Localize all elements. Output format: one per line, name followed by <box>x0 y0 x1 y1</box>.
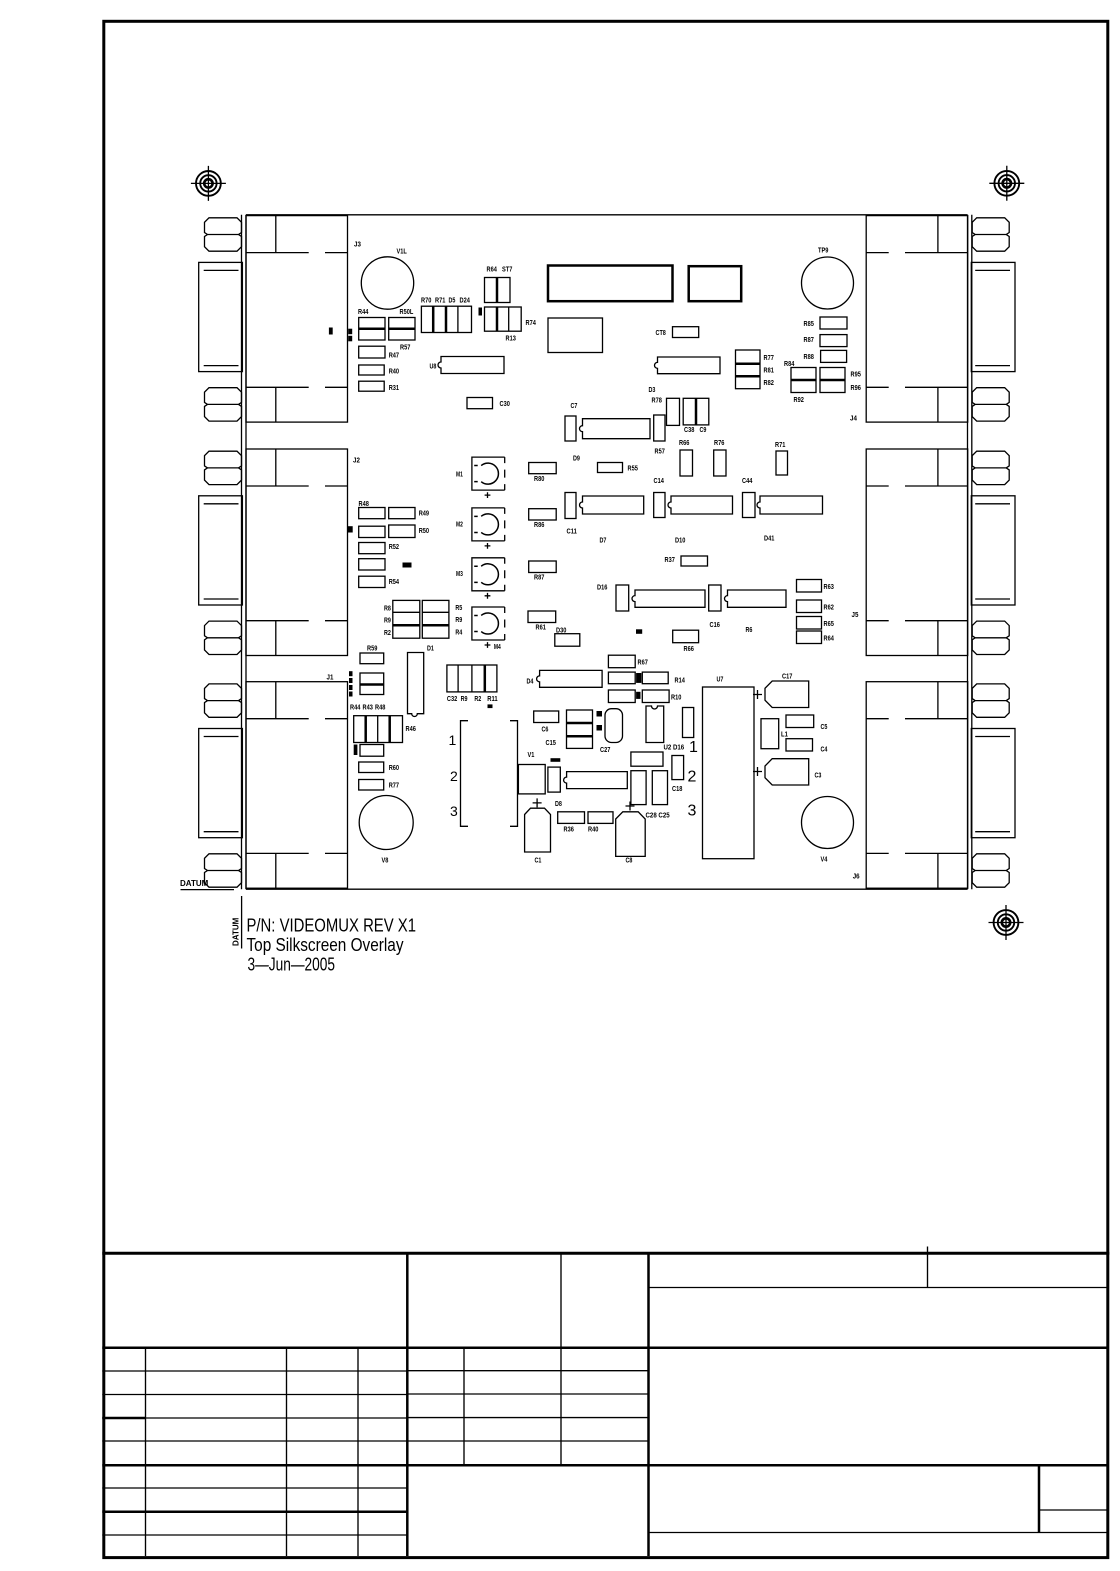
svg-text:M1: M1 <box>456 470 463 479</box>
svg-text:R70: R70 <box>421 296 431 305</box>
title block right column row line <box>649 1287 1109 1289</box>
svg-text:R61: R61 <box>536 623 546 632</box>
svg-text:R80: R80 <box>534 474 544 483</box>
resistor R53 <box>359 559 385 570</box>
capacitor C22 <box>652 771 667 805</box>
svg-text:R50: R50 <box>419 526 429 535</box>
svg-text:R64: R64 <box>824 634 835 643</box>
svg-text:R8: R8 <box>384 604 391 613</box>
resistor R59 <box>360 653 384 664</box>
IC U8 <box>438 357 504 374</box>
svg-text:R74: R74 <box>526 318 537 327</box>
svg-text:R48: R48 <box>359 499 369 508</box>
svg-text:CT8: CT8 <box>656 328 666 337</box>
PCB board right flange line <box>971 215 973 889</box>
svg-text:3: 3 <box>688 803 697 820</box>
resistor R64b <box>797 631 822 644</box>
svg-text:R57: R57 <box>655 447 665 456</box>
capacitor C14 <box>654 493 665 518</box>
bracket right <box>510 721 518 827</box>
svg-text:R6: R6 <box>746 625 753 634</box>
title block right column top cell divider <box>927 1253 929 1287</box>
jumper block R64/ST7 <box>485 278 511 303</box>
svg-text:C44: C44 <box>742 476 753 485</box>
svg-text:D10: D10 <box>675 536 685 545</box>
svg-text:C28 C25: C28 C25 <box>646 811 670 820</box>
svg-text:C8: C8 <box>626 856 633 865</box>
resistor R54 <box>359 576 385 587</box>
svg-text:R63: R63 <box>824 582 834 591</box>
svg-text:R10: R10 <box>671 693 681 702</box>
svg-text:R64: R64 <box>487 265 498 274</box>
trimmer M3 <box>472 558 505 591</box>
resistor array R46 <box>354 716 403 743</box>
resistor R65 <box>797 617 822 630</box>
svg-text:C14: C14 <box>654 476 665 485</box>
svg-text:R71: R71 <box>775 440 785 449</box>
diode D30 <box>555 634 580 647</box>
connector J2 (middle-left D-sub) <box>199 449 348 656</box>
svg-text:R87: R87 <box>804 335 814 344</box>
capacitor C1 <box>525 808 551 852</box>
IC U13 <box>632 590 705 607</box>
capacitor C18 <box>672 756 684 780</box>
svg-text:R50L: R50L <box>400 307 414 316</box>
svg-text:V8: V8 <box>382 856 389 865</box>
svg-text:R55: R55 <box>628 464 638 473</box>
svg-text:R85: R85 <box>804 319 814 328</box>
svg-text:R66: R66 <box>679 438 689 447</box>
jumper block R84 <box>791 368 816 393</box>
svg-text:R36: R36 <box>564 825 574 834</box>
pin mark <box>348 329 352 335</box>
svg-text:C4: C4 <box>821 745 829 754</box>
svg-text:R82: R82 <box>764 378 774 387</box>
trimmer M1 <box>472 457 505 490</box>
svg-text:D3: D3 <box>649 385 656 394</box>
title block horizontal thick lower <box>102 1464 1108 1467</box>
title block horizontal thick mid <box>102 1346 1108 1349</box>
connector J6 (bottom-right D-sub) <box>866 682 1015 889</box>
svg-text:R76: R76 <box>714 438 724 447</box>
svg-text:R62: R62 <box>824 603 834 612</box>
resistor R68 <box>673 630 699 643</box>
svg-text:L1: L1 <box>781 730 788 739</box>
svg-text:R5: R5 <box>455 603 462 612</box>
svg-text:C11: C11 <box>567 527 577 536</box>
svg-text:R14: R14 <box>675 676 686 685</box>
resistor R85 <box>820 317 847 329</box>
pad V8 circle <box>359 796 413 850</box>
svg-text:J5: J5 <box>852 610 859 619</box>
relay K2 (thick outline) <box>689 266 742 301</box>
svg-text:R13: R13 <box>506 334 516 343</box>
resistor R36 <box>558 812 585 824</box>
resistor R40 <box>359 365 385 375</box>
resistor array C32 <box>447 665 497 692</box>
svg-text:R9: R9 <box>455 615 462 624</box>
svg-text:C32: C32 <box>447 694 457 703</box>
IC U12 <box>757 496 823 514</box>
svg-text:R4: R4 <box>455 628 463 637</box>
svg-text:D4: D4 <box>527 677 535 686</box>
title block bottom right sub column <box>1038 1465 1041 1532</box>
svg-text:C15: C15 <box>546 738 556 747</box>
svg-text:1: 1 <box>449 732 457 748</box>
svg-text:R84: R84 <box>784 359 795 368</box>
resistor R52 <box>359 543 385 554</box>
pin mark <box>329 328 333 335</box>
bracket left <box>461 721 469 827</box>
svg-text:D9: D9 <box>573 454 580 463</box>
svg-text:R57: R57 <box>400 343 410 352</box>
svg-text:R86: R86 <box>534 520 544 529</box>
svg-text:D30: D30 <box>556 625 566 634</box>
svg-text:J2: J2 <box>353 456 360 465</box>
svg-text:R44: R44 <box>358 307 369 316</box>
resistor array 3-row <box>567 710 593 748</box>
revision table thick row <box>102 1510 407 1513</box>
svg-text:M2: M2 <box>456 520 463 529</box>
PCB board outline bottom edge <box>246 888 968 890</box>
capacitor C36 <box>616 585 629 611</box>
pin mark <box>349 692 353 697</box>
fiducial target top-right <box>989 166 1024 201</box>
IC U11 <box>668 496 733 514</box>
pin mark <box>479 308 483 316</box>
svg-text:R87: R87 <box>534 573 544 582</box>
pad TP circle <box>802 257 854 309</box>
capacitor C5 <box>786 715 814 728</box>
PCB board right edge line <box>967 215 969 889</box>
IC U9 <box>564 772 628 789</box>
svg-text:2: 2 <box>450 768 458 784</box>
jumper block R55b <box>360 673 384 695</box>
svg-text:2: 2 <box>688 769 697 786</box>
svg-text:D41: D41 <box>764 534 774 543</box>
svg-text:D5: D5 <box>449 296 456 305</box>
label R60b <box>551 758 561 762</box>
capacitor C30 <box>467 398 493 409</box>
IC U4 <box>655 357 721 374</box>
resistor R66 <box>680 450 693 476</box>
svg-text:R52: R52 <box>389 542 399 551</box>
resistor R60 <box>359 762 384 773</box>
svg-text:U7: U7 <box>717 675 724 684</box>
connector J3 (top-left D-sub) <box>199 216 348 423</box>
IC U14 <box>725 590 787 607</box>
svg-text:J4: J4 <box>850 414 858 423</box>
diode D1 body <box>408 653 424 717</box>
title block bottom right row <box>649 1532 1109 1534</box>
title block divider vertical left <box>406 1253 409 1556</box>
resistor R50L <box>389 318 415 341</box>
svg-text:C18: C18 <box>672 784 682 793</box>
resistor R14 pair <box>608 672 635 684</box>
PCB board left flange line <box>241 215 243 889</box>
resistor R47 <box>359 346 385 358</box>
middle grid rows <box>407 1370 648 1372</box>
svg-text:C6: C6 <box>542 725 549 734</box>
svg-text:C9: C9 <box>700 425 707 434</box>
jumper block R8/R9/R2 <box>393 600 420 638</box>
svg-text:R92: R92 <box>794 395 804 404</box>
svg-text:R2: R2 <box>474 694 481 703</box>
svg-text:R77: R77 <box>389 781 399 790</box>
IC U6 <box>631 752 663 766</box>
svg-text:J3: J3 <box>354 240 361 249</box>
IC U10 <box>580 496 644 514</box>
pin mark <box>488 704 493 708</box>
svg-text:V4: V4 <box>821 855 829 864</box>
capacitor C12 <box>683 708 694 738</box>
svg-text:DATUM: DATUM <box>180 879 209 888</box>
IC U5 <box>580 419 651 439</box>
svg-text:D16: D16 <box>597 583 607 592</box>
polarity plus V1 <box>533 798 542 807</box>
capacitor C17 <box>765 681 809 708</box>
fiducial target top-left <box>191 166 226 201</box>
svg-text:M3: M3 <box>456 569 463 578</box>
resistor CT8 <box>673 327 699 338</box>
regulator U2 <box>646 706 664 743</box>
svg-text:3: 3 <box>450 803 458 819</box>
pin mark <box>354 745 358 756</box>
svg-text:C5: C5 <box>821 722 828 731</box>
capacitor C7 <box>565 416 576 441</box>
capacitor C3 <box>765 759 809 785</box>
svg-text:R78: R78 <box>652 396 662 405</box>
resistor R56 <box>360 745 384 757</box>
svg-text:R2: R2 <box>384 628 391 637</box>
capacitor C21 <box>631 771 646 805</box>
svg-text:R59: R59 <box>367 644 377 653</box>
resistor R76 <box>714 450 726 476</box>
resistor R62 <box>797 600 822 613</box>
polarity plus C17 <box>753 690 762 699</box>
capacitor C9 <box>683 398 709 425</box>
svg-text:C3: C3 <box>815 771 822 780</box>
title block divider vertical right <box>647 1253 650 1556</box>
resistor R61 <box>528 611 556 623</box>
svg-text:C30: C30 <box>500 399 510 408</box>
svg-text:Top Silkscreen Overlay: Top Silkscreen Overlay <box>247 935 404 955</box>
IC D4 <box>537 670 603 687</box>
capacitor C38 <box>667 398 680 425</box>
resistor R67 <box>608 655 635 668</box>
svg-text:DATUM: DATUM <box>232 917 241 946</box>
svg-text:R43: R43 <box>363 703 373 712</box>
svg-text:R48: R48 <box>375 703 385 712</box>
svg-text:R67: R67 <box>638 658 648 667</box>
resistor R40b <box>588 812 613 824</box>
svg-text:C38: C38 <box>684 425 694 434</box>
svg-text:R54: R54 <box>389 577 400 586</box>
trimmer M4 <box>472 607 505 640</box>
svg-text:R65: R65 <box>824 619 834 628</box>
resistor R44 <box>359 318 385 341</box>
capacitor C10 <box>565 493 576 519</box>
jumper block R74 <box>485 307 522 331</box>
resistor array R77 R81 R82 <box>736 350 761 389</box>
label D20 <box>403 563 412 568</box>
PCB board left edge line <box>245 215 247 889</box>
connector J4 (top-right D-sub) <box>866 216 1015 423</box>
svg-text:R49: R49 <box>419 509 429 518</box>
label R8b <box>636 629 642 634</box>
inductor L1 <box>761 719 779 749</box>
svg-text:D8: D8 <box>555 799 562 808</box>
fiducial target bottom-right <box>989 905 1024 940</box>
connector J5 (middle-right D-sub) <box>866 449 1015 656</box>
svg-text:R31: R31 <box>389 383 399 392</box>
switch S1 (thick outline) <box>548 266 673 302</box>
relay K1 <box>548 318 603 353</box>
resistor R55 <box>598 463 623 473</box>
svg-text:R40: R40 <box>389 367 399 376</box>
pin mark <box>348 336 352 342</box>
resistor R31 <box>359 381 385 391</box>
svg-text:R37: R37 <box>665 555 675 564</box>
title block middle top cell divider <box>560 1253 562 1465</box>
resistor R71 <box>776 451 788 475</box>
pin mark <box>349 671 353 676</box>
svg-text:V1: V1 <box>528 750 535 759</box>
revision table rows <box>102 1370 407 1372</box>
svg-text:R40: R40 <box>588 825 598 834</box>
svg-text:C7: C7 <box>571 401 578 410</box>
svg-text:D24: D24 <box>460 296 471 305</box>
svg-text:U8: U8 <box>430 362 437 371</box>
resistor R87b <box>529 561 557 573</box>
jumper block R96 <box>820 368 845 393</box>
revision table vertical lines <box>145 1348 147 1556</box>
resistor R50 <box>389 525 415 538</box>
resistor R80 <box>529 463 557 474</box>
capacitor C34 <box>743 493 756 518</box>
resistor R63 <box>797 580 822 593</box>
pin mark <box>348 526 353 532</box>
pin mark <box>349 685 353 690</box>
svg-text:R47: R47 <box>389 351 399 360</box>
title block middle grid vertical <box>463 1348 465 1466</box>
capacitor C35 <box>709 585 721 611</box>
svg-text:M4: M4 <box>494 642 501 651</box>
svg-text:R44: R44 <box>350 703 361 712</box>
pin mark <box>349 678 353 683</box>
capacitor C13 <box>654 415 665 441</box>
pin mark <box>597 725 603 731</box>
svg-text:J6: J6 <box>853 872 860 881</box>
jumper block R5/R9/R4 <box>422 600 449 638</box>
svg-text:1: 1 <box>689 739 698 756</box>
svg-text:R95: R95 <box>851 370 861 379</box>
svg-text:TP9: TP9 <box>818 246 828 255</box>
polarity plus C8 <box>626 802 635 811</box>
resistor R60v <box>548 767 560 792</box>
PCB board outline top edge <box>246 214 968 216</box>
svg-text:C17: C17 <box>782 672 792 681</box>
svg-text:R46: R46 <box>406 724 416 733</box>
tick above title block <box>927 1247 929 1254</box>
svg-text:R9: R9 <box>384 616 391 625</box>
datum extension line below board <box>241 896 243 949</box>
pad V1L circle <box>361 257 413 309</box>
svg-text:ST7: ST7 <box>502 265 512 274</box>
title block top border <box>102 1252 1109 1255</box>
svg-text:P/N: VIDEOMUX REV X1: P/N: VIDEOMUX REV X1 <box>247 916 417 936</box>
svg-text:D1: D1 <box>427 644 434 653</box>
capacitor C27 <box>605 709 623 743</box>
svg-text:C27: C27 <box>600 745 610 754</box>
svg-text:R71: R71 <box>435 296 445 305</box>
capacitor C4 <box>786 739 813 751</box>
svg-text:U2 D16: U2 D16 <box>664 743 685 752</box>
resistor R37 <box>681 556 708 566</box>
svg-text:R9: R9 <box>461 694 468 703</box>
pad V4 circle <box>802 797 854 849</box>
svg-text:C16: C16 <box>710 620 720 629</box>
capacitor C6 <box>534 711 559 723</box>
svg-text:R60: R60 <box>389 763 399 772</box>
polarity plus C3 <box>753 767 762 776</box>
resistor R49 <box>389 508 415 519</box>
pad V1 <box>518 765 545 794</box>
connector J1 (bottom-left D-sub) <box>199 682 348 889</box>
svg-text:R66: R66 <box>684 644 694 653</box>
resistor R77b <box>359 780 384 791</box>
capacitor C8 <box>616 812 646 857</box>
resistor R87 <box>820 335 847 347</box>
trimmer M2 <box>472 508 505 541</box>
svg-text:3—Jun—2005: 3—Jun—2005 <box>248 955 336 975</box>
svg-text:J1: J1 <box>327 673 334 682</box>
svg-text:R11: R11 <box>487 694 497 703</box>
svg-text:D7: D7 <box>600 536 607 545</box>
svg-text:V1L: V1L <box>397 247 408 256</box>
resistor R51 <box>359 526 385 537</box>
resistor R86 <box>529 509 557 520</box>
svg-text:R96: R96 <box>851 383 861 392</box>
svg-text:C1: C1 <box>535 856 542 865</box>
resistor R88 <box>821 350 847 362</box>
svg-text:R81: R81 <box>764 366 774 375</box>
resistor R48 <box>359 508 385 519</box>
DATUM underline <box>181 889 235 891</box>
svg-text:R77: R77 <box>764 353 774 362</box>
IC U7 <box>703 687 755 859</box>
resistor R10 pair <box>608 690 635 703</box>
revision table thick segment <box>102 1417 145 1420</box>
pin mark <box>597 711 603 717</box>
svg-text:R88: R88 <box>804 352 814 361</box>
